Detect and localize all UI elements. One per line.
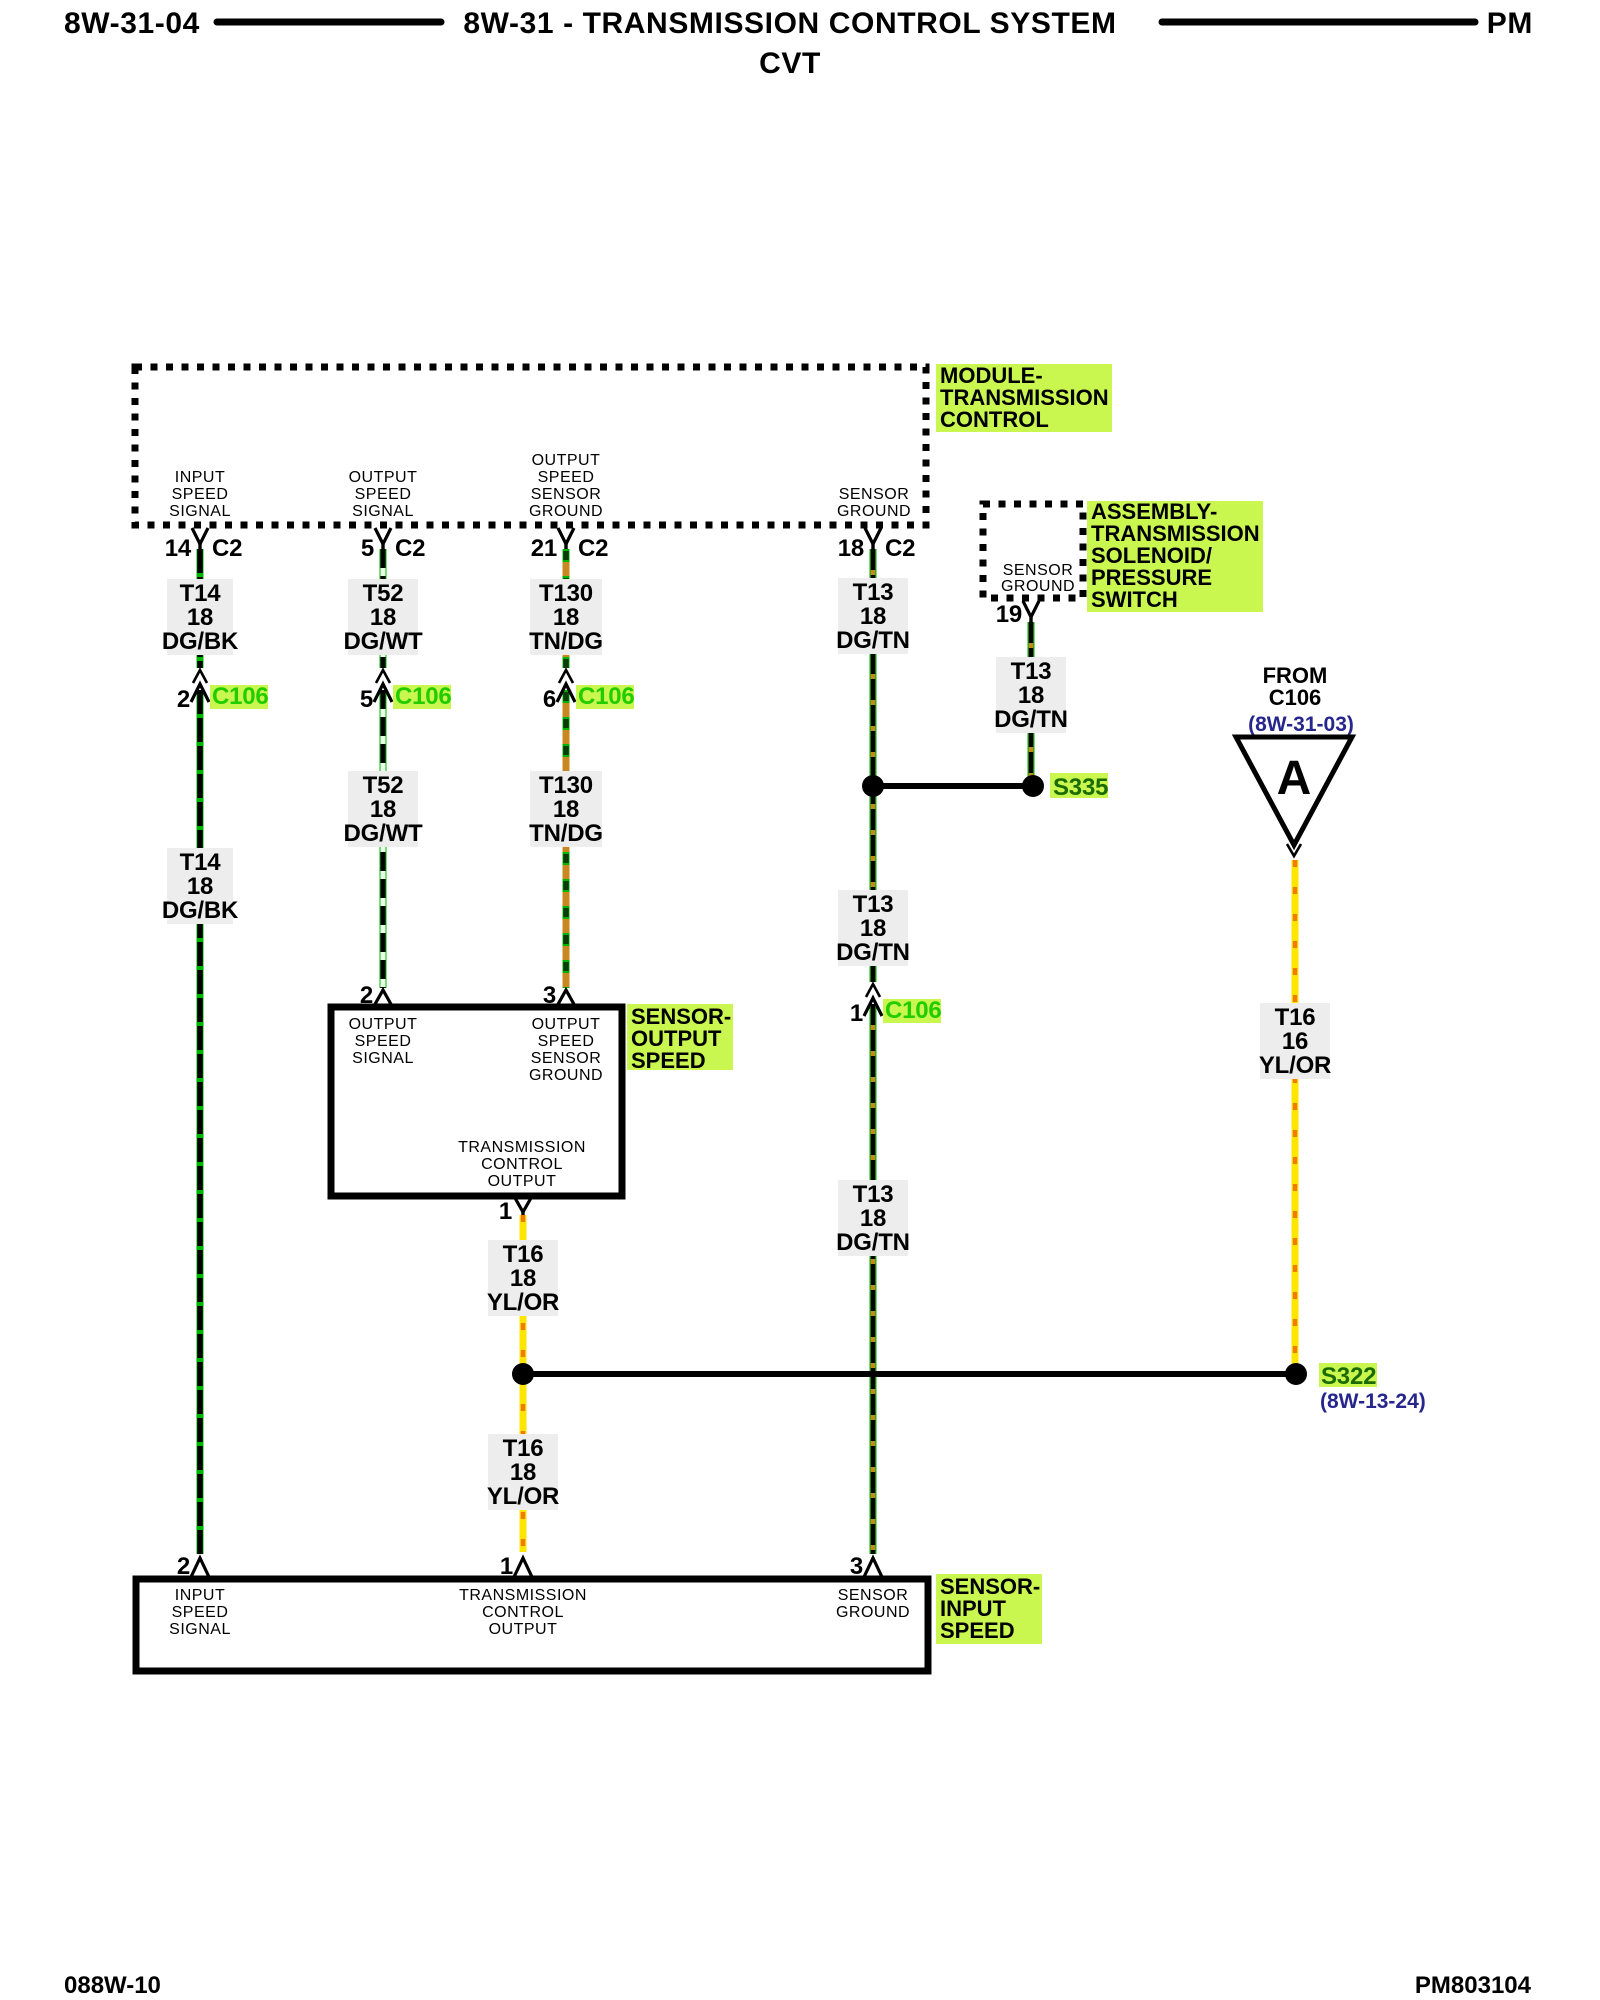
svg-text:18: 18 [1018, 682, 1044, 709]
svg-text:T130: T130 [539, 580, 593, 607]
svg-text:18: 18 [860, 1205, 886, 1232]
svg-text:CVT: CVT [759, 47, 821, 80]
svg-text:SPEED: SPEED [538, 1033, 595, 1050]
svg-text:1: 1 [499, 1198, 512, 1225]
assembly-transmission solenoid/pressure switch box (dotted) [983, 504, 1083, 598]
svg-text:T16: T16 [503, 1435, 544, 1462]
sensor-input speed pin 3 [850, 1553, 882, 1580]
svg-text:SPEED: SPEED [631, 1048, 706, 1073]
svg-text:C106: C106 [395, 683, 452, 710]
module pin label SENSOR GROUND [837, 486, 911, 520]
svg-text:T130: T130 [539, 772, 593, 799]
svg-text:TN/DG: TN/DG [529, 820, 603, 847]
sensor-output speed pin label OUTPUT SPEED SENSOR GROUND [529, 1016, 603, 1084]
label T16 18 YL/OR (upper) [487, 1240, 559, 1316]
svg-text:16: 16 [1282, 1028, 1308, 1055]
svg-text:C106: C106 [578, 683, 635, 710]
sensor-input speed label highlight SENSOR-INPUT SPEED [936, 1574, 1042, 1644]
svg-text:2: 2 [177, 686, 190, 713]
svg-text:6: 6 [543, 686, 556, 713]
label T14 18 DG/BK (lower) [162, 848, 239, 924]
connector C2 pin 21 [531, 528, 609, 562]
splice S335 tag [1050, 773, 1108, 801]
svg-text:GROUND: GROUND [529, 1067, 603, 1084]
splice S322 bus wire [523, 1371, 1296, 1377]
header rule right [1162, 19, 1475, 26]
svg-text:PM: PM [1487, 7, 1533, 40]
svg-text:C106: C106 [1269, 685, 1322, 710]
svg-text:OUTPUT: OUTPUT [349, 1016, 418, 1033]
label T13 18 DG/TN (bottom) [836, 1180, 910, 1256]
svg-text:DG/TN: DG/TN [836, 939, 910, 966]
sensor-input speed pin label SENSOR GROUND [836, 1587, 910, 1621]
wire T14 18 DG/BK lower segment [197, 690, 204, 1554]
label T16 16 YL/OR [1259, 1003, 1331, 1079]
svg-text:3: 3 [543, 982, 556, 1009]
svg-text:DG/TN: DG/TN [994, 706, 1068, 733]
module pin label OUTPUT SPEED SIGNAL [349, 469, 418, 520]
svg-text:CONTROL: CONTROL [940, 407, 1049, 432]
assembly pin label SENSOR GROUND [1001, 562, 1075, 595]
svg-text:DG/BK: DG/BK [162, 897, 239, 924]
label T52 18 DG/WT (upper) [344, 579, 424, 655]
svg-text:SPEED: SPEED [538, 469, 595, 486]
svg-text:A: A [1277, 752, 1312, 805]
svg-text:3: 3 [850, 1553, 863, 1580]
module pin label OUTPUT SPEED SENSOR GROUND [529, 452, 603, 520]
svg-text:T16: T16 [1275, 1004, 1316, 1031]
svg-text:INPUT: INPUT [175, 469, 226, 486]
svg-text:5: 5 [360, 686, 373, 713]
wire T52 18 DG/WT lower segment [380, 690, 387, 988]
wire T130 18 TN/DG upper segment [563, 549, 570, 668]
svg-text:DG/TN: DG/TN [836, 627, 910, 654]
svg-text:PM803104: PM803104 [1415, 1972, 1532, 1999]
svg-text:SWITCH: SWITCH [1091, 587, 1178, 612]
sensor-output speed pin label TRANSMISSION CONTROL OUTPUT [458, 1139, 586, 1190]
svg-text:18: 18 [187, 604, 213, 631]
svg-text:T14: T14 [180, 580, 222, 607]
sensor-output speed pin 1 [499, 1198, 531, 1225]
svg-text:GROUND: GROUND [1001, 578, 1075, 595]
assembly label highlight ASSEMBLY-TRANSMISSION SOLENOID/PRESSURE SWITCH [1087, 499, 1263, 612]
module label highlight MODULE-TRANSMISSION CONTROL [936, 363, 1112, 432]
wire T130 18 TN/DG lower segment [563, 690, 570, 988]
svg-text:1: 1 [500, 1553, 513, 1580]
svg-text:18: 18 [553, 796, 579, 823]
svg-text:C2: C2 [212, 535, 242, 562]
connector C106 pin 1 [850, 984, 942, 1027]
svg-text:OUTPUT: OUTPUT [489, 1621, 558, 1638]
label T13 18 DG/TN (assembly) [994, 657, 1068, 733]
svg-text:SPEED: SPEED [940, 1618, 1015, 1643]
svg-text:YL/OR: YL/OR [487, 1289, 559, 1316]
svg-text:DG/BK: DG/BK [162, 628, 239, 655]
wire T13 18 DG/TN from assembly pin 19 [1028, 622, 1035, 786]
label T14 18 DG/BK (upper) [162, 579, 239, 655]
svg-text:088W-10: 088W-10 [64, 1972, 161, 1999]
svg-text:T16: T16 [503, 1241, 544, 1268]
svg-text:14: 14 [165, 535, 192, 562]
svg-text:18: 18 [860, 603, 886, 630]
sensor-output speed label highlight SENSOR-OUTPUT SPEED [627, 1004, 733, 1073]
splice S322 junction dot left [512, 1363, 534, 1385]
svg-text:SPEED: SPEED [172, 486, 229, 503]
svg-text:SENSOR: SENSOR [839, 486, 910, 503]
svg-text:SIGNAL: SIGNAL [169, 503, 231, 520]
svg-text:OUTPUT: OUTPUT [349, 469, 418, 486]
sensor-input speed pin 2 [177, 1553, 209, 1580]
sensor-output speed pin label OUTPUT SPEED SIGNAL [349, 1016, 418, 1067]
svg-text:TN/DG: TN/DG [529, 628, 603, 655]
connector C106 pin 5 [360, 670, 452, 713]
svg-text:2: 2 [177, 1553, 190, 1580]
svg-text:8W-31-04: 8W-31-04 [64, 7, 200, 40]
svg-text:C2: C2 [395, 535, 425, 562]
svg-text:DG/WT: DG/WT [344, 820, 424, 847]
splice S322 tag [1319, 1363, 1377, 1390]
sensor-input speed pin label INPUT SPEED SIGNAL [169, 1587, 231, 1638]
svg-text:SPEED: SPEED [355, 1033, 412, 1050]
svg-text:2: 2 [360, 982, 373, 1009]
svg-text:SPEED: SPEED [355, 486, 412, 503]
svg-text:SENSOR: SENSOR [1003, 562, 1074, 579]
svg-text:SENSOR: SENSOR [531, 486, 602, 503]
label T13 18 DG/TN (top) [836, 578, 910, 654]
svg-text:T13: T13 [853, 891, 894, 918]
svg-text:TRANSMISSION: TRANSMISSION [459, 1587, 587, 1604]
sensor-output speed box [331, 1007, 622, 1196]
sensor-input speed box [136, 1579, 928, 1671]
svg-text:CONTROL: CONTROL [482, 1604, 564, 1621]
svg-text:18: 18 [860, 915, 886, 942]
label T130 18 TN/DG (lower) [529, 771, 603, 847]
svg-text:C2: C2 [885, 535, 915, 562]
svg-text:T52: T52 [363, 772, 404, 799]
svg-text:GROUND: GROUND [837, 503, 911, 520]
svg-text:18: 18 [370, 796, 396, 823]
svg-text:18: 18 [838, 535, 864, 562]
splice S335 bus wire [873, 783, 1033, 789]
label T52 18 DG/WT (lower) [344, 771, 424, 847]
wire T16 16 YL/OR from triangle A [1292, 860, 1299, 1374]
sensor-output speed pin 3 [543, 982, 575, 1009]
header rule left [217, 19, 441, 26]
svg-text:OUTPUT: OUTPUT [532, 452, 601, 469]
svg-text:SIGNAL: SIGNAL [352, 1050, 414, 1067]
wire T14 18 DG/BK upper segment [197, 549, 204, 668]
triangle apex connector v [1287, 844, 1301, 856]
svg-text:18: 18 [510, 1459, 536, 1486]
svg-text:OUTPUT: OUTPUT [488, 1173, 557, 1190]
svg-text:T52: T52 [363, 580, 404, 607]
svg-text:YL/OR: YL/OR [487, 1483, 559, 1510]
svg-text:(8W-13-24): (8W-13-24) [1320, 1390, 1426, 1413]
svg-text:8W-31 - TRANSMISSION CONTROL S: 8W-31 - TRANSMISSION CONTROL SYSTEM [463, 7, 1116, 40]
svg-text:DG/TN: DG/TN [836, 1229, 910, 1256]
svg-text:OUTPUT: OUTPUT [532, 1016, 601, 1033]
splice S322 junction dot right [1285, 1363, 1307, 1385]
svg-text:S322: S322 [1321, 1363, 1376, 1390]
svg-text:18: 18 [510, 1265, 536, 1292]
wire T13 18 DG/TN from module upper segment [870, 549, 877, 982]
svg-text:T13: T13 [853, 1181, 894, 1208]
label T130 18 TN/DG (upper) [529, 579, 603, 655]
splice S335 junction dot right [1022, 775, 1044, 797]
wire T16 18 YL/OR [520, 1215, 527, 1552]
sensor-input speed pin label TRANSMISSION CONTROL OUTPUT [459, 1587, 587, 1638]
svg-text:18: 18 [553, 604, 579, 631]
svg-text:18: 18 [370, 604, 396, 631]
svg-text:DG/WT: DG/WT [344, 628, 424, 655]
svg-text:SENSOR: SENSOR [838, 1587, 909, 1604]
svg-text:T13: T13 [1011, 658, 1052, 685]
label T16 18 YL/OR (lower) [487, 1434, 559, 1510]
svg-text:C106: C106 [212, 683, 269, 710]
off-page reference FROM C106 label [1263, 663, 1328, 710]
svg-text:SIGNAL: SIGNAL [169, 1621, 231, 1638]
svg-text:C106: C106 [885, 997, 942, 1024]
svg-text:YL/OR: YL/OR [1259, 1052, 1331, 1079]
svg-text:21: 21 [531, 535, 557, 562]
sensor-input speed pin 1 [500, 1553, 532, 1580]
svg-text:T13: T13 [853, 579, 894, 606]
svg-text:5: 5 [361, 535, 374, 562]
svg-text:SIGNAL: SIGNAL [352, 503, 414, 520]
sensor-output speed pin 2 [360, 982, 392, 1009]
svg-text:INPUT: INPUT [175, 1587, 226, 1604]
svg-text:18: 18 [187, 873, 213, 900]
svg-text:SPEED: SPEED [172, 1604, 229, 1621]
svg-text:GROUND: GROUND [836, 1604, 910, 1621]
assembly pin 19 [996, 601, 1039, 628]
off-page triangle A [1236, 737, 1352, 845]
splice S335 junction dot left [862, 775, 884, 797]
svg-text:SENSOR: SENSOR [531, 1050, 602, 1067]
connector C2 pin 18 [838, 528, 916, 562]
wire T13 18 DG/TN lower segment to input speed sensor [870, 1004, 877, 1554]
svg-text:1: 1 [850, 1000, 863, 1027]
svg-text:T14: T14 [180, 849, 222, 876]
svg-text:CONTROL: CONTROL [481, 1156, 563, 1173]
svg-text:C2: C2 [578, 535, 608, 562]
svg-text:GROUND: GROUND [529, 503, 603, 520]
svg-text:TRANSMISSION: TRANSMISSION [458, 1139, 586, 1156]
connector C2 pin 14 [165, 528, 243, 562]
module-transmission control box U1 [135, 367, 926, 525]
connector C2 pin 5 [361, 528, 425, 562]
svg-text:19: 19 [996, 601, 1022, 628]
connector C106 pin 2 [177, 670, 269, 713]
svg-text:(8W-31-03): (8W-31-03) [1248, 713, 1354, 736]
module pin label INPUT SPEED SIGNAL [169, 469, 231, 520]
svg-text:S335: S335 [1053, 774, 1108, 801]
connector C106 pin 6 [543, 670, 635, 713]
label T13 18 DG/TN (middle) [836, 890, 910, 966]
wire T52 18 DG/WT upper segment [380, 549, 387, 668]
